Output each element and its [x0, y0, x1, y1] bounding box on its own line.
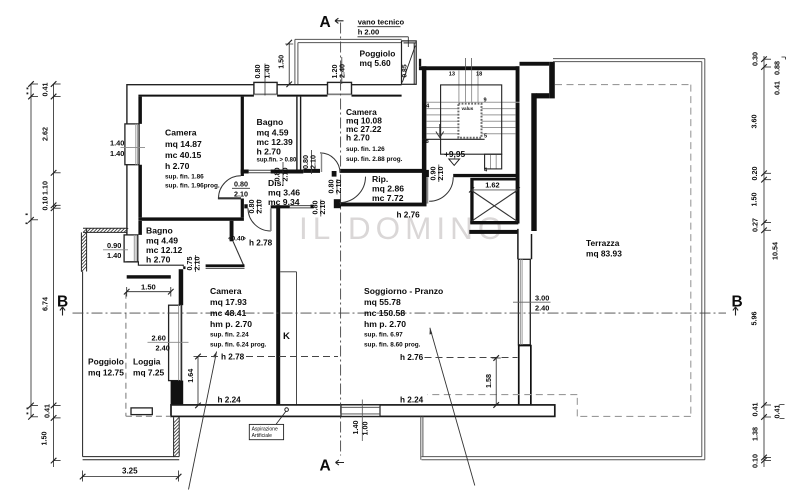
door camera2 arc [248, 208, 271, 231]
svg-text:mc 7.72: mc 7.72 [372, 193, 404, 203]
svg-text:mc 48.41: mc 48.41 [210, 308, 247, 318]
svg-text:0.80: 0.80 [234, 180, 248, 189]
dim 1.50 poggiolo560 [288, 43, 290, 85]
svg-text:mq 83.93: mq 83.93 [586, 249, 622, 259]
wall camera2 right / kitchen [276, 205, 280, 405]
stair eye rect [441, 85, 502, 154]
svg-text:2.10: 2.10 [193, 257, 202, 271]
svg-text:2.10: 2.10 [234, 190, 248, 199]
wall soggiorno top left part [341, 203, 427, 207]
svg-text:1.40: 1.40 [110, 139, 124, 148]
dim bottom window 1.40/1.00 [361, 400, 363, 442]
svg-text:2.40: 2.40 [156, 344, 170, 353]
svg-text:2.10: 2.10 [255, 200, 264, 214]
svg-text:mq 2.86: mq 2.86 [372, 184, 404, 194]
svg-text:mc 9.34: mc 9.34 [268, 197, 300, 207]
dim chain left outer [28, 81, 38, 419]
svg-text:Soggiorno - Pranzo: Soggiorno - Pranzo [364, 286, 443, 296]
svg-text:sup. fin. 2.88 prog.: sup. fin. 2.88 prog. [346, 156, 403, 163]
svg-text:h 2.70: h 2.70 [346, 133, 370, 143]
svg-text:mq 7.25: mq 7.25 [133, 368, 165, 378]
svg-text:mc 12.39: mc 12.39 [257, 137, 294, 147]
dim labels right [750, 52, 760, 468]
stair flight edge lines above wall [465, 58, 467, 70]
svg-text:mq 3.46: mq 3.46 [268, 188, 300, 198]
svg-text:1.38: 1.38 [751, 427, 760, 441]
svg-text:h 2.76: h 2.76 [397, 211, 421, 220]
svg-text:A: A [320, 458, 331, 475]
svg-text:h 2.70: h 2.70 [257, 147, 282, 157]
svg-text:h 2.78: h 2.78 [221, 353, 245, 362]
section line B-B [73, 312, 727, 314]
svg-text:1.40: 1.40 [110, 149, 124, 158]
svg-text:0.10: 0.10 [41, 197, 50, 211]
svg-text:0.85: 0.85 [402, 64, 409, 77]
svg-text:1.40: 1.40 [262, 65, 271, 79]
kitchen K lines [280, 272, 296, 405]
dim window w4 labels [341, 57, 343, 84]
wall camera2 left lower [171, 381, 184, 406]
dim 1.64 [194, 354, 203, 409]
poggiolo outline + hatch [81, 228, 179, 460]
wall A jamb upper [332, 171, 337, 177]
door 0.40 diagonal [233, 241, 244, 266]
svg-text:sup. fin. 6.97: sup. fin. 6.97 [364, 332, 403, 339]
cap at loggia step [183, 266, 185, 269]
wall closet vertical [230, 221, 234, 242]
svg-text:0.10: 0.10 [751, 454, 760, 468]
svg-text:mq 14.87: mq 14.87 [165, 139, 202, 149]
door label 0.90/2.10 entry [438, 165, 440, 183]
svg-text:h 2.00: h 2.00 [358, 28, 380, 37]
svg-text:2.60: 2.60 [152, 334, 166, 343]
svg-text:2.40: 2.40 [535, 304, 549, 313]
door arcs [219, 153, 366, 231]
vano tecnico box [402, 37, 417, 85]
svg-text:Bagno: Bagno [146, 226, 173, 236]
svg-text:valus: valus [462, 106, 474, 111]
svg-text:0.41: 0.41 [751, 403, 760, 417]
leader arrow right [430, 328, 475, 486]
svg-text:2.10: 2.10 [334, 180, 343, 194]
svg-text:Poggiolo: Poggiolo [360, 49, 396, 59]
svg-text:sup. fin. 6.24 prog.: sup. fin. 6.24 prog. [210, 342, 267, 349]
shaft 1.62 dim [472, 189, 518, 191]
entry door arc [429, 177, 453, 201]
svg-text:1.40: 1.40 [107, 251, 121, 260]
dim chain right [761, 56, 771, 467]
svg-text:9: 9 [484, 98, 487, 104]
svg-text:mq 55.78: mq 55.78 [364, 297, 401, 307]
svg-text:sup.fin. > 0.80: sup.fin. > 0.80 [257, 158, 298, 164]
svg-text:sup. fin. 2.24: sup. fin. 2.24 [210, 332, 249, 339]
svg-text:2.10: 2.10 [309, 155, 318, 169]
door camera1 arc [219, 176, 242, 199]
svg-text:2.40: 2.40 [338, 64, 347, 78]
dim 1.58 [492, 355, 501, 408]
window W1 camera sx left [125, 124, 139, 165]
NE corner walls [520, 62, 550, 66]
svg-text:vano tecnico: vano tecnico [358, 18, 405, 27]
svg-text:0.27: 0.27 [751, 218, 760, 232]
terrace dashed inner boundary [427, 85, 690, 417]
aspirazione label [249, 424, 283, 439]
door label 0.80/2.10 dis-soggiorno [320, 200, 322, 217]
bottom wall band [171, 405, 555, 417]
wall camera10.08 bottom [303, 169, 422, 173]
svg-text:1.64: 1.64 [186, 369, 195, 383]
svg-text:2.10: 2.10 [280, 168, 289, 182]
svg-text:5.96: 5.96 [750, 312, 759, 326]
loggia dashed boundary [126, 293, 171, 416]
leader arrow left [189, 352, 217, 490]
svg-text:mq 5.60: mq 5.60 [360, 58, 392, 68]
door sill bagno1 [249, 170, 271, 173]
svg-text:B: B [732, 294, 743, 311]
east wall upper [531, 93, 536, 231]
section line A-A [340, 23, 342, 456]
window W5 camera2 left [169, 305, 182, 380]
svg-text:1.50: 1.50 [750, 193, 759, 207]
svg-text:sup. fin. 1.86: sup. fin. 1.86 [165, 174, 204, 181]
svg-text:hm p. 2.70: hm p. 2.70 [210, 319, 252, 329]
door camera1 leaf [218, 197, 241, 199]
door label 0.80/2.10 dis-camera2 [257, 200, 259, 215]
svg-text:Camera: Camera [210, 286, 242, 296]
svg-text:mq 17.93: mq 17.93 [210, 297, 247, 307]
door camera2 leaf [270, 208, 272, 231]
svg-text:mq 4.59: mq 4.59 [257, 128, 289, 138]
dim labels left inner [40, 83, 52, 446]
window W3 top wall camera sx [254, 82, 277, 94]
elevator [458, 104, 481, 138]
door rip arc [340, 177, 366, 203]
svg-text:h 2.78: h 2.78 [249, 239, 273, 248]
svg-text:h 2.24: h 2.24 [400, 396, 424, 405]
svg-text:K: K [283, 331, 290, 342]
svg-text:2.10: 2.10 [318, 201, 327, 215]
bagno2 bottom thin step outline [126, 262, 183, 266]
svg-text:Camera: Camera [165, 128, 197, 138]
window W4 top wall camera 10.08 [328, 82, 352, 94]
svg-text:0.88: 0.88 [773, 61, 782, 75]
vent circle [285, 408, 289, 412]
wall bagno1 bottom [241, 170, 304, 174]
svg-text:h 2.70: h 2.70 [165, 161, 190, 171]
svg-text:3.25: 3.25 [122, 467, 138, 476]
svg-text:Aspirazione: Aspirazione [252, 427, 278, 433]
wall below shaft [469, 230, 518, 234]
svg-text:3.00: 3.00 [535, 294, 549, 303]
svg-text:mc 40.15: mc 40.15 [165, 150, 202, 160]
dim chain left outer dot labels [26, 88, 29, 415]
svg-text:0.41: 0.41 [43, 404, 52, 418]
dim window w3 labels [264, 64, 266, 96]
svg-text:Loggia: Loggia [133, 357, 161, 367]
dim chain left inner [51, 81, 61, 467]
poggiolo 5.60 outline [295, 39, 402, 84]
east wall lower upper-seg [518, 229, 532, 259]
svg-text:14: 14 [423, 104, 430, 110]
svg-text:Rip.: Rip. [372, 174, 388, 184]
wall bagno2 bottom right [206, 264, 245, 267]
svg-text:Bagno: Bagno [257, 117, 284, 127]
wall top inner thick [138, 95, 401, 97]
svg-text:0.41: 0.41 [773, 405, 782, 419]
landing bottom wall [453, 174, 518, 177]
svg-text:sup. fin. 8.60 prog.: sup. fin. 8.60 prog. [364, 342, 421, 349]
stair down arrow [439, 124, 441, 136]
door camera10.08 leaf [321, 153, 323, 172]
svg-text:13: 13 [449, 72, 455, 78]
svg-text:1.62: 1.62 [485, 180, 499, 189]
door label 0.80/2.10 rip [336, 179, 338, 195]
svg-text:1.50: 1.50 [40, 432, 49, 446]
wall bagno2 top [138, 217, 244, 220]
svg-text:mq 12.75: mq 12.75 [88, 368, 124, 378]
flower box loggia [131, 408, 152, 415]
svg-text:0.41: 0.41 [773, 81, 782, 95]
dim labels right outer [771, 61, 782, 419]
svg-text:1.50: 1.50 [141, 283, 156, 292]
stairwell outer walls [419, 66, 520, 70]
shaft X diagonals [472, 191, 517, 222]
east wall below window [518, 345, 532, 405]
svg-text:0.40: 0.40 [232, 236, 245, 243]
door camera10.08 arc [320, 153, 340, 173]
landing line [422, 138, 485, 140]
svg-text:10.54: 10.54 [771, 242, 780, 260]
svg-text:h 2.70: h 2.70 [146, 255, 171, 265]
window W6 soggiorno east [518, 259, 530, 345]
svg-text:3.60: 3.60 [750, 115, 759, 129]
svg-text:6.74: 6.74 [41, 297, 50, 311]
svg-text:mc 12.12: mc 12.12 [146, 245, 183, 255]
terrace outline double lines [421, 59, 705, 460]
wall camera1 right [241, 97, 244, 218]
window W2 bagno2 left [124, 235, 138, 262]
svg-text:0.30: 0.30 [751, 52, 760, 66]
svg-text:mq 4.49: mq 4.49 [146, 236, 178, 246]
wall dis bottom [244, 204, 313, 208]
svg-text:1.40: 1.40 [351, 421, 360, 435]
wall camera2 left upper [179, 269, 184, 305]
dim 3.25 bottom [80, 471, 182, 482]
dashed h-lines [200, 357, 518, 358]
svg-text:18: 18 [423, 139, 429, 145]
wire top outer wall line [126, 84, 401, 262]
svg-text:18: 18 [476, 72, 482, 78]
svg-text:mc 150.58: mc 150.58 [364, 308, 405, 318]
door label 0.80/2.10 camera1008 [311, 150, 313, 174]
stair treads top flight [426, 70, 519, 168]
svg-text:0.41: 0.41 [41, 83, 50, 97]
svg-text:2.62: 2.62 [41, 127, 50, 141]
svg-text:Terrazza: Terrazza [586, 238, 620, 248]
wall left inner thick [138, 97, 142, 235]
svg-text:h 2.24: h 2.24 [218, 396, 242, 405]
bottom flight box [485, 154, 502, 169]
wall A jamb lower [334, 199, 341, 208]
wall loggia top [127, 275, 171, 278]
dim 1.50 loggia [124, 287, 174, 297]
shaft cavedio walls [470, 178, 518, 181]
svg-text:0.80: 0.80 [253, 65, 262, 79]
svg-text:sup. fin. 1.96prog.: sup. fin. 1.96prog. [165, 183, 220, 190]
svg-text:1.00: 1.00 [361, 422, 370, 436]
wall bagno1 right (double) [297, 97, 301, 170]
svg-text:Artificiale: Artificiale [252, 433, 273, 439]
svg-text:h 2.76: h 2.76 [400, 353, 424, 362]
door sill dis-soggiorno [290, 206, 311, 208]
window W7 bottom [341, 405, 380, 417]
svg-text:2.10: 2.10 [436, 167, 445, 181]
svg-text:A: A [320, 14, 331, 31]
door label 0.75/2.10 bagno2 [195, 255, 197, 272]
svg-text:Poggiolo: Poggiolo [88, 357, 124, 367]
svg-text:1.10: 1.10 [41, 181, 50, 195]
svg-text:0.90: 0.90 [107, 241, 121, 250]
svg-text:sup. fin. 1.26: sup. fin. 1.26 [346, 146, 385, 153]
svg-text:hm p. 2.70: hm p. 2.70 [364, 319, 406, 329]
svg-text:1.58: 1.58 [484, 374, 493, 388]
entry jamb [422, 170, 429, 177]
svg-text:5: 5 [484, 134, 487, 140]
door label 0.80/2.10 bagno1 [282, 162, 284, 186]
svg-text:0.20: 0.20 [750, 167, 759, 181]
svg-text:+9,95: +9,95 [444, 149, 466, 159]
svg-text:1.50: 1.50 [276, 55, 285, 69]
